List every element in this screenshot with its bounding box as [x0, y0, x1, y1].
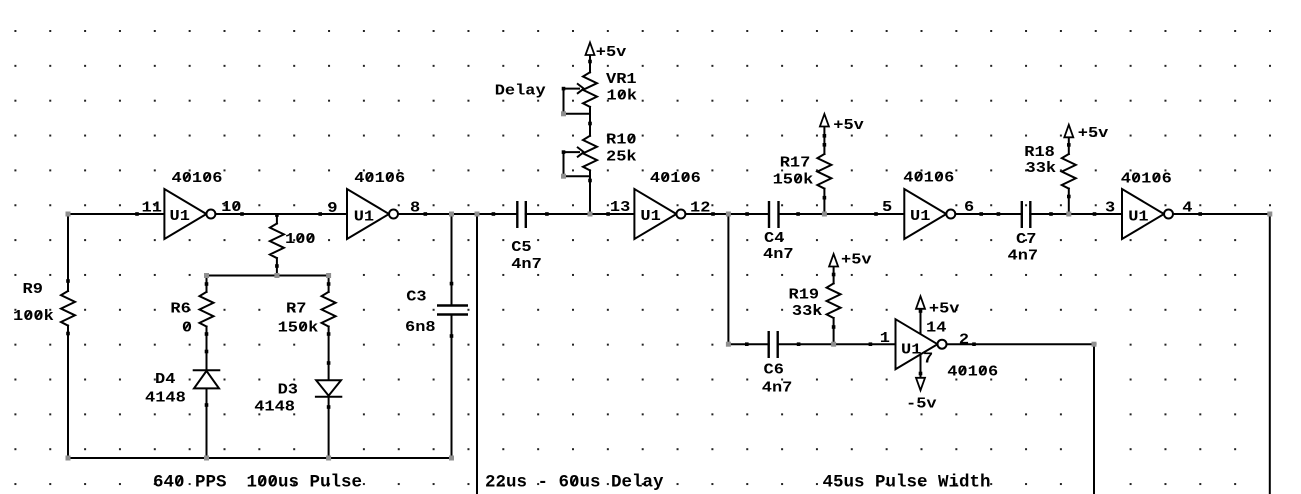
svg-text:C7: C7 — [1016, 231, 1036, 248]
svg-text:4n7: 4n7 — [1008, 247, 1039, 264]
designator U1 (pins1-2) — [901, 342, 921, 359]
caption 100us Pulse — [247, 473, 363, 493]
pin end markers — [66, 60, 1202, 409]
svg-text:10: 10 — [221, 199, 241, 216]
resistor R7 150k — [322, 292, 336, 327]
value 4n7 (C5) — [511, 256, 542, 273]
label C5 — [511, 239, 531, 256]
label R19 — [789, 286, 820, 303]
value 150k (R7) — [278, 319, 319, 336]
pin 8 — [410, 199, 420, 216]
svg-text:U1: U1 — [354, 208, 374, 225]
resistor R9 100k — [61, 291, 75, 326]
+5v supply (R18) — [1064, 125, 1073, 138]
value 10k (VR1) — [607, 87, 638, 104]
svg-text:R18: R18 — [1024, 144, 1055, 161]
label 40106 (U1 pins9-8) — [354, 170, 405, 187]
svg-text:3: 3 — [1105, 199, 1115, 216]
label 40106 (U1 pins3-4) — [1121, 170, 1172, 187]
svg-text:4: 4 — [1182, 199, 1193, 216]
wire drop pin12 node to bottom row — [727, 214, 729, 344]
capacitor C5 4n7 — [517, 201, 526, 228]
label Delay — [495, 82, 546, 99]
svg-text:R7: R7 — [286, 300, 306, 317]
label 40106 (U1 pins1-2) — [947, 363, 998, 380]
svg-text:R6: R6 — [170, 300, 190, 317]
svg-text:4148: 4148 — [254, 398, 295, 415]
label C3 — [406, 288, 426, 305]
wire R19 branch — [833, 266, 835, 344]
caption 640 PPS — [153, 473, 227, 493]
svg-text:33k: 33k — [792, 303, 823, 320]
pin 14 — [926, 319, 947, 336]
value 4n7 (C7) — [1008, 247, 1039, 264]
value 4148 (D3) — [254, 398, 295, 415]
svg-text:R9: R9 — [23, 281, 43, 298]
designator U1 (pins3-4) — [1128, 208, 1148, 225]
svg-text:R17: R17 — [780, 154, 811, 171]
wire drop from pin2 corner — [1093, 344, 1095, 494]
value 25k (R10) — [606, 148, 637, 165]
svg-text:+5v: +5v — [833, 117, 864, 134]
svg-text:R19: R19 — [789, 286, 820, 303]
+5v supply (U1 pin14) — [916, 296, 925, 309]
wire U1 pin7 supply lead — [920, 352, 922, 378]
wire bottom row seg3 (pin2 out) — [947, 343, 1095, 345]
svg-text:U1: U1 — [910, 208, 930, 225]
inverter U1 pins 3-4 — [1122, 189, 1173, 239]
net +5v (VR1) — [596, 44, 627, 61]
wire R6 top lead — [206, 276, 208, 292]
wire right drop from pin4 — [1269, 214, 1271, 494]
svg-text:+5v: +5v — [841, 251, 872, 268]
svg-text:+5v: +5v — [596, 44, 627, 61]
label D4 — [155, 371, 176, 388]
wire D4 to bottom rail — [206, 388, 208, 458]
wire R6-R7 tie bar — [207, 275, 329, 277]
svg-text:U1: U1 — [170, 208, 190, 225]
net -5v (pin7) — [906, 395, 937, 412]
svg-text:R10: R10 — [606, 131, 637, 148]
caption 22us - 60us Delay — [485, 473, 664, 493]
pin 12 — [690, 199, 710, 216]
pin 5 — [882, 199, 892, 216]
designator U1 (pins11-10) — [170, 208, 190, 225]
wire R18 branch — [1068, 136, 1070, 214]
pin 1 — [880, 330, 890, 347]
svg-text:40106: 40106 — [354, 170, 405, 187]
value 4n7 (C4) — [763, 246, 794, 263]
net +5v (R17) — [833, 117, 864, 134]
svg-text:100k: 100k — [13, 308, 54, 325]
svg-text:12: 12 — [690, 199, 710, 216]
label R10 — [606, 131, 637, 148]
capacitor C6 4n7 — [769, 331, 778, 358]
label 40106 (U1 pins13-12) — [650, 170, 701, 187]
net +5v (R18) — [1078, 125, 1109, 142]
wire section divider — [476, 214, 478, 494]
wire R17 branch — [823, 127, 825, 214]
wire R7 top lead — [328, 276, 330, 292]
value 150k (R17) — [773, 171, 814, 188]
wire top rail seg2 (pin10 to pin9) — [215, 213, 347, 215]
svg-text:40106: 40106 — [947, 363, 998, 380]
svg-text:6: 6 — [964, 199, 974, 216]
label R18 — [1024, 144, 1055, 161]
svg-text:C3: C3 — [406, 288, 426, 305]
wire VR1 wiper return — [564, 89, 591, 114]
diode D3 4148 — [316, 380, 341, 396]
svg-text:+5v: +5v — [1078, 125, 1109, 142]
value 33k (R19) — [792, 303, 823, 320]
svg-text:1: 1 — [880, 330, 890, 347]
svg-text:0: 0 — [182, 319, 192, 336]
wire R7 to D3 — [328, 327, 330, 381]
resistor R19 33k — [827, 283, 841, 318]
svg-text:40106: 40106 — [1121, 170, 1172, 187]
pin 9 — [327, 200, 337, 217]
svg-text:150k: 150k — [278, 319, 319, 336]
capacitor C3 6n8 — [437, 306, 468, 315]
wire top rail seg9 (pin4 to right corner) — [1173, 213, 1270, 215]
wire bottom row seg2 (C6 to pin1) — [778, 343, 896, 345]
svg-text:+5v: +5v — [929, 300, 960, 317]
diode D4 4148 — [194, 370, 220, 388]
wire top rail seg1 — [68, 213, 164, 215]
resistor R10 25k — [578, 136, 597, 171]
svg-text:D4: D4 — [155, 371, 176, 388]
pin 10 — [221, 199, 241, 216]
label 40106 (U1 pins5-6) — [903, 169, 954, 186]
label C4 — [764, 230, 785, 247]
svg-text:8: 8 — [410, 199, 420, 216]
svg-text:C6: C6 — [764, 361, 784, 378]
wire resistor-100 bottom lead — [276, 258, 278, 275]
svg-text:C4: C4 — [764, 230, 785, 247]
label C7 — [1016, 231, 1036, 248]
+5v supply (VR1) — [586, 43, 595, 56]
svg-text:150k: 150k — [773, 171, 814, 188]
wire bottom row seg1 (to C6) — [728, 343, 768, 345]
svg-text:4n7: 4n7 — [511, 256, 542, 273]
+5v supply (R19) — [829, 254, 838, 267]
label R6 — [170, 300, 190, 317]
svg-text:4148: 4148 — [145, 389, 186, 406]
-5v supply (U1 pin7) — [916, 378, 925, 391]
label R17 — [780, 154, 811, 171]
svg-text:40106: 40106 — [650, 170, 701, 187]
+5v supply (R17) — [820, 114, 829, 127]
resistor R17 150k — [817, 154, 831, 189]
inverter U1 pins 9-8 — [347, 189, 398, 239]
svg-text:22us - 60us Delay: 22us - 60us Delay — [485, 473, 664, 493]
pin 6 — [964, 199, 974, 216]
label R9 — [23, 281, 43, 298]
svg-text:14: 14 — [926, 319, 947, 336]
svg-text:40106: 40106 — [903, 169, 954, 186]
value 100k (R9) — [13, 308, 54, 325]
svg-text:10k: 10k — [607, 87, 638, 104]
svg-text:640 PPS: 640 PPS — [153, 473, 227, 493]
svg-text:D3: D3 — [278, 381, 298, 398]
pin 7 — [923, 350, 933, 367]
value 33k (R18) — [1026, 160, 1057, 177]
caption 45us Pulse Width — [823, 473, 991, 493]
value 0 (R6) — [182, 319, 192, 336]
wire U1 pin14 supply lead — [920, 309, 922, 339]
svg-text:25k: 25k — [606, 148, 637, 165]
pin 2 — [959, 331, 969, 348]
wire bottom rail left section — [68, 457, 452, 459]
wire D3 to bottom rail — [328, 397, 330, 458]
wire top rail seg5 (pin12 to C4) — [685, 213, 769, 215]
potentiometer VR1 10k — [578, 72, 597, 107]
label R7 — [286, 300, 306, 317]
capacitor C7 4n7 — [1022, 201, 1031, 228]
pin 13 — [610, 199, 630, 216]
value 4n7 (C6) — [762, 379, 793, 396]
inverter U1 pins 1-2 — [896, 319, 947, 369]
pin 11 — [142, 199, 162, 216]
label VR1 — [606, 71, 637, 88]
wire top rail seg6 (C4 to pin5) — [779, 213, 905, 215]
resistor R6 0 — [200, 292, 214, 327]
inverter U1 pins 13-12 — [634, 189, 685, 239]
svg-text:45us Pulse Width: 45us Pulse Width — [823, 473, 991, 493]
wire left branch lower (R9 bottom lead) — [67, 326, 69, 458]
svg-text:13: 13 — [610, 199, 630, 216]
label 40106 (U1 pins11-10) — [172, 170, 223, 187]
net +5v (R19) — [841, 251, 872, 268]
wire left branch upper (R9 top lead) — [67, 214, 69, 291]
wire junction nodes (gray) — [66, 111, 1273, 460]
pin 4 — [1182, 199, 1193, 216]
wire C3 branch lower — [451, 316, 453, 458]
wire top rail seg4 (C5 to pin13) — [526, 213, 635, 215]
value 100 — [285, 231, 316, 248]
svg-text:9: 9 — [327, 200, 337, 217]
wire top rail seg3 (pin8 to C5) — [398, 213, 517, 215]
value 6n8 (C3) — [405, 319, 436, 336]
svg-text:6n8: 6n8 — [405, 319, 436, 336]
svg-text:40106: 40106 — [172, 170, 223, 187]
wire R6 to D4 — [206, 327, 208, 371]
label D3 — [278, 381, 298, 398]
resistor 100 — [270, 224, 284, 259]
svg-text:100us Pulse: 100us Pulse — [247, 473, 363, 493]
svg-text:5: 5 — [882, 199, 892, 216]
svg-text:-5v: -5v — [906, 395, 937, 412]
label C6 — [764, 361, 784, 378]
svg-text:VR1: VR1 — [606, 71, 637, 88]
svg-text:11: 11 — [142, 199, 162, 216]
wire C3 branch upper — [451, 214, 453, 304]
designator U1 (pins13-12) — [640, 208, 660, 225]
svg-text:U1: U1 — [640, 208, 660, 225]
wire R10 wiper return — [564, 152, 591, 176]
capacitor C4 4n7 — [769, 201, 779, 228]
svg-text:U1: U1 — [1128, 208, 1148, 225]
svg-text:Delay: Delay — [495, 82, 546, 99]
resistor R18 33k — [1062, 154, 1076, 189]
value 4148 (D4) — [145, 389, 186, 406]
inverter U1 pins 11-10 — [164, 189, 215, 239]
wire resistor-100 top lead — [276, 214, 278, 224]
designator U1 (pins5-6) — [910, 208, 930, 225]
svg-text:4n7: 4n7 — [763, 246, 794, 263]
svg-text:100: 100 — [285, 231, 316, 248]
svg-text:33k: 33k — [1026, 160, 1057, 177]
designator U1 (pins9-8) — [354, 208, 374, 225]
svg-text:4n7: 4n7 — [762, 379, 793, 396]
svg-text:U1: U1 — [901, 342, 921, 359]
svg-text:C5: C5 — [511, 239, 531, 256]
inverter U1 pins 5-6 — [904, 189, 955, 239]
net +5v (pin14) — [929, 300, 960, 317]
wire VR1 branch (power to rail) — [589, 54, 591, 214]
svg-text:7: 7 — [923, 350, 933, 367]
wire top rail seg8 (C7 to pin3) — [1030, 213, 1122, 215]
wire top rail seg7 (pin6 to C7) — [955, 213, 1022, 215]
svg-text:2: 2 — [959, 331, 969, 348]
pin 3 — [1105, 199, 1115, 216]
